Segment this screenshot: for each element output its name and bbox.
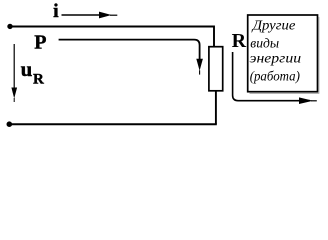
current arrow i bbox=[62, 12, 118, 19]
node A (top-left junction dot) bbox=[7, 24, 12, 29]
wire (top conductor from node A to top-right corner, then down to resistor) bbox=[10, 27, 214, 48]
svg-text:энергии: энергии bbox=[250, 52, 302, 67]
energy flow arrow (from R down and right to the energy box) bbox=[233, 52, 317, 104]
svg-text:R: R bbox=[33, 71, 44, 87]
svg-text:u: u bbox=[21, 57, 33, 81]
annotation box "Другие виды энергии (работа)" bbox=[248, 15, 318, 92]
resistor R (vertical rectangle) bbox=[209, 47, 223, 91]
wire (from resistor bottom to bottom conductor) bbox=[215, 91, 217, 124]
svg-text:(работа): (работа) bbox=[250, 70, 301, 85]
svg-text:виды: виды bbox=[250, 37, 279, 52]
svg-text:R: R bbox=[232, 30, 247, 52]
power flow arrow P (horizontal, bends down toward resistor) bbox=[59, 40, 203, 75]
svg-text:i: i bbox=[53, 1, 58, 22]
svg-text:P: P bbox=[34, 31, 46, 53]
voltage arrow u_R (down-pointing at left) bbox=[11, 44, 17, 102]
wire (bottom conductor) bbox=[9, 123, 217, 125]
svg-text:Другие: Другие bbox=[250, 19, 295, 34]
node B (bottom-left junction dot) bbox=[7, 121, 13, 127]
